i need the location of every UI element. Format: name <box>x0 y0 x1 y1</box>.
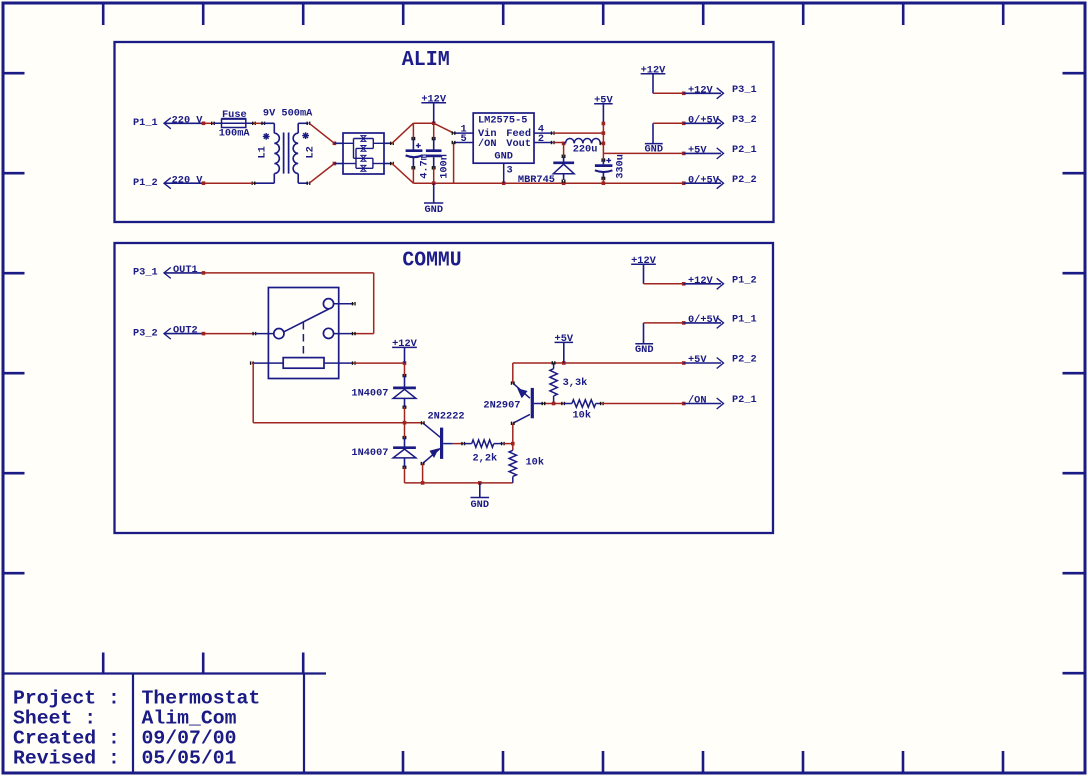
power +12V (COMMU) <box>392 338 418 363</box>
wire +12V to P3_1 <box>653 92 686 96</box>
ground GND (COMMU ports) <box>635 323 654 356</box>
capacitor 4.7m <box>406 123 431 183</box>
0V rail under regulator <box>413 181 685 185</box>
svg-text:Vout: Vout <box>506 138 531 150</box>
wire Q1 base <box>453 442 465 445</box>
wire Q2 collector to 10k <box>512 423 514 450</box>
svg-text:Thermostat: Thermostat <box>142 688 261 710</box>
svg-text:P1_2: P1_2 <box>732 274 757 286</box>
+5V rail to P2_1 <box>603 152 685 156</box>
svg-text:L1: L1 <box>257 146 269 158</box>
svg-text:P1_2: P1_2 <box>133 177 158 189</box>
svg-text:1N4007: 1N4007 <box>351 447 388 459</box>
svg-text:1N4007: 1N4007 <box>351 387 388 399</box>
svg-text:+5V: +5V <box>688 354 707 366</box>
ground GND (below caps) <box>424 183 443 216</box>
diode MBR745 <box>518 143 574 186</box>
power +5V (ALIM) <box>594 94 613 125</box>
svg-text:OUT2: OUT2 <box>173 325 198 337</box>
svg-text:P2_2: P2_2 <box>732 174 757 186</box>
wire fuse to transformer L1 <box>254 122 265 125</box>
svg-text:+5V: +5V <box>688 145 707 157</box>
svg-text:+12V: +12V <box>688 275 714 287</box>
port P2_1 (+5V) <box>684 144 757 159</box>
net label 220 V (P1_2) <box>164 174 204 186</box>
svg-text:ALIM: ALIM <box>402 48 450 72</box>
resistor 3,3k <box>550 361 587 403</box>
port P3_2 (OUT2) <box>133 327 171 339</box>
svg-text:Alim_Com: Alim_Com <box>142 708 237 730</box>
wire GND to P3_2 <box>653 122 686 126</box>
wire /ON to 0V <box>453 143 455 184</box>
wire Vout(2) to diode/inductor node <box>553 142 566 146</box>
port P2_1 (/ON) <box>684 394 757 409</box>
resistor 10k (base) <box>563 400 604 422</box>
svg-text:Revised :: Revised : <box>13 748 120 770</box>
svg-text:9V 500mA: 9V 500mA <box>263 108 313 120</box>
port P1_2 (+12V) <box>684 274 757 289</box>
block COMMU box <box>115 243 774 533</box>
inductor 220u <box>564 138 606 155</box>
svg-text:/ON: /ON <box>688 395 707 407</box>
wire GND to P1_1 <box>644 321 686 325</box>
svg-text:COMMU: COMMU <box>402 248 461 272</box>
wire P1_1 to fuse <box>202 122 215 126</box>
svg-text:/ON: /ON <box>478 138 497 150</box>
svg-text:220 V: 220 V <box>172 174 204 186</box>
svg-text:GND: GND <box>635 344 654 356</box>
svg-text:0/+5V: 0/+5V <box>688 314 720 326</box>
power +5V (COMMU) <box>555 333 574 363</box>
svg-text:MBR745: MBR745 <box>518 174 555 186</box>
svg-text:Project :: Project : <box>13 688 120 710</box>
svg-text:220u: 220u <box>573 143 598 155</box>
relay K1 <box>250 288 356 379</box>
svg-text:P2_2: P2_2 <box>732 354 757 366</box>
wire P1_2 to transformer <box>202 181 254 185</box>
wire bridge to +12V node <box>392 121 454 143</box>
svg-text:10k: 10k <box>526 457 545 469</box>
svg-text:P3_2: P3_2 <box>732 114 757 126</box>
port P3_1 (+12V) <box>684 84 757 99</box>
net label OUT1 <box>164 264 204 276</box>
fuse Fuse 100mA <box>213 109 256 139</box>
port P1_2 <box>133 177 171 189</box>
bridge rectifier B1 <box>334 133 394 174</box>
svg-text:2: 2 <box>538 133 544 145</box>
wire +12V to P1_2 <box>644 282 686 286</box>
net label OUT2 <box>164 325 204 337</box>
svg-text:GND: GND <box>471 499 490 511</box>
svg-text:100mA: 100mA <box>219 127 251 139</box>
power +12V (ALIM) <box>421 93 447 123</box>
wire Feed(4) to +5V node <box>553 132 604 134</box>
svg-text:2N2907: 2N2907 <box>483 400 520 412</box>
svg-text:2N2222: 2N2222 <box>428 411 465 423</box>
wire +5V node vertical <box>602 124 606 154</box>
resistor 2,2k <box>463 440 505 464</box>
svg-text:P1_1: P1_1 <box>133 117 158 129</box>
regulator U1 LM2575-5 <box>452 113 555 183</box>
power +12V (COMMU ports) <box>631 255 657 284</box>
svg-text:100n: 100n <box>438 154 450 179</box>
capacitor 100n <box>426 123 450 183</box>
port P1_1 (0/+5V) <box>684 313 757 328</box>
svg-text:GND: GND <box>494 151 513 163</box>
svg-text:OUT1: OUT1 <box>173 264 198 276</box>
svg-text:P2_1: P2_1 <box>732 394 757 406</box>
svg-text:Sheet :: Sheet : <box>13 708 96 730</box>
svg-text:220 V: 220 V <box>172 114 204 126</box>
svg-text:3,3k: 3,3k <box>563 377 588 389</box>
transformer T1 L1/L2 9V 500mA <box>252 108 317 185</box>
svg-text:+12V: +12V <box>688 84 714 96</box>
block ALIM box <box>115 42 774 222</box>
wire 2,2k to divider node <box>503 442 515 446</box>
svg-text:GND: GND <box>425 204 444 216</box>
svg-text:2,2k: 2,2k <box>473 452 498 464</box>
wire OUT1 to relay NO contact <box>202 271 374 334</box>
wire L2 to bridge (diagonals) <box>309 123 336 183</box>
svg-text:P3_1: P3_1 <box>732 84 757 96</box>
svg-text:Created :: Created : <box>13 728 120 750</box>
svg-text:P3_2: P3_2 <box>133 327 158 339</box>
0V rail (COMMU) <box>405 481 513 485</box>
port P2_2 (0/+5V) <box>684 174 757 189</box>
net label 220 V (P1_1) <box>164 114 204 126</box>
diode D2 1N4007 (lower) <box>351 423 416 483</box>
diode D1 1N4007 (upper) <box>351 363 416 423</box>
port P1_1 <box>133 117 171 129</box>
svg-text:05/05/01: 05/05/01 <box>142 748 237 770</box>
power +12V (ALIM ports) <box>641 64 667 93</box>
ground GND (ALIM ports) <box>645 123 664 155</box>
svg-text:P2_1: P2_1 <box>732 144 757 156</box>
+5V rail (COMMU) to P2_2 <box>554 361 686 365</box>
capacitor 330u <box>595 153 627 183</box>
svg-text:4.7m: 4.7m <box>418 154 430 179</box>
ground GND (COMMU bottom) <box>471 483 490 511</box>
wire bridge to 0V rail <box>392 164 413 184</box>
svg-text:L2: L2 <box>305 146 317 158</box>
wire Q2 emitter to +5V rail <box>513 363 554 383</box>
wire Q2 base node <box>542 402 566 406</box>
svg-text:GND: GND <box>645 144 664 156</box>
wire /ON to P2_1 <box>602 402 686 406</box>
transistor Q2 2N2907 <box>483 381 543 425</box>
svg-text:09/07/00: 09/07/00 <box>142 728 237 750</box>
svg-text:3: 3 <box>507 165 513 177</box>
svg-text:P3_1: P3_1 <box>133 267 158 279</box>
port P3_1 (OUT1) <box>133 267 171 279</box>
svg-text:LM2575-5: LM2575-5 <box>478 114 527 126</box>
port P2_2 (+5V) <box>684 354 757 369</box>
svg-text:330u: 330u <box>615 154 627 179</box>
wire OUT2 to relay common <box>202 332 257 336</box>
svg-text:5: 5 <box>461 133 467 145</box>
transistor Q1 2N2222 <box>421 411 465 466</box>
svg-text:10k: 10k <box>573 409 592 421</box>
wire relay coil to +12V node <box>354 361 407 365</box>
resistor 10k (pull-down) <box>509 450 544 483</box>
wire Q1 emitter to 0V <box>421 464 425 485</box>
svg-text:0/+5V: 0/+5V <box>688 174 720 186</box>
port P3_2 (0/+5V) <box>684 114 757 129</box>
svg-text:0/+5V: 0/+5V <box>688 114 720 126</box>
wire coil return (left) down and across <box>252 363 423 424</box>
svg-text:P1_1: P1_1 <box>732 313 757 325</box>
